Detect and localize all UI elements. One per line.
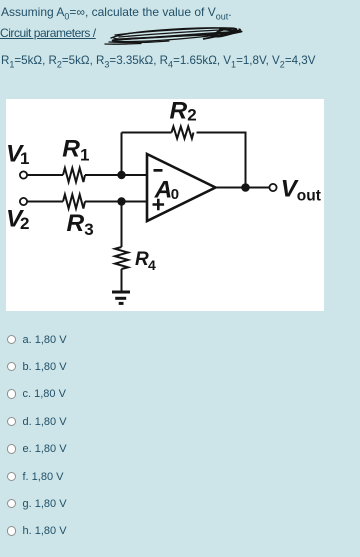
answer option c bbox=[0, 384, 360, 404]
wire: V2 terminal to R3 bbox=[28, 201, 64, 203]
resistor R1 bbox=[63, 168, 85, 182]
answer option d bbox=[0, 412, 360, 432]
node A (inverting junction) bbox=[117, 171, 125, 179]
answer option f bbox=[0, 467, 360, 487]
wire: feedback top right segment bbox=[197, 133, 246, 188]
scribble redaction bbox=[103, 23, 245, 48]
wire: op-amp output bbox=[216, 187, 270, 189]
svg-text:1: 1 bbox=[80, 145, 89, 164]
answer option h bbox=[0, 521, 360, 541]
terminal V1 bbox=[20, 171, 27, 178]
answer option g bbox=[0, 494, 360, 514]
resistor R3 bbox=[63, 195, 85, 209]
wire: node A up to feedback bbox=[121, 133, 123, 176]
label R4 bbox=[135, 249, 156, 273]
svg-text:R: R bbox=[135, 249, 149, 270]
op-amp minus sign bbox=[154, 169, 163, 172]
label A0 bbox=[154, 177, 180, 204]
svg-text:4: 4 bbox=[148, 257, 156, 273]
svg-text:1: 1 bbox=[20, 149, 29, 168]
wire: feedback top left segment bbox=[122, 132, 172, 134]
svg-text:out: out bbox=[297, 188, 321, 205]
svg-text:2: 2 bbox=[20, 214, 29, 233]
terminal Vout bbox=[269, 184, 276, 191]
answer option a bbox=[0, 330, 360, 350]
resistor R2 bbox=[172, 127, 194, 139]
question line 3: parameters bbox=[1, 55, 315, 67]
wire: node B down to R4 bbox=[121, 202, 123, 248]
svg-text:2: 2 bbox=[187, 106, 196, 125]
circuit image white box bbox=[6, 99, 324, 312]
node B (non-inverting junction) bbox=[117, 197, 125, 205]
label V1 bbox=[6, 140, 29, 167]
label V2 bbox=[6, 205, 29, 233]
op-amp plus sign bbox=[153, 199, 165, 211]
label Vout bbox=[281, 176, 321, 205]
label R3 bbox=[67, 210, 94, 239]
svg-text:3: 3 bbox=[84, 220, 93, 239]
ground bbox=[112, 292, 130, 303]
resistor R4 bbox=[115, 247, 128, 269]
svg-text:A: A bbox=[154, 177, 173, 204]
wire: R4 to ground bbox=[121, 269, 123, 291]
answer option b bbox=[0, 357, 360, 377]
question line 2: link bbox=[0, 27, 96, 39]
svg-text:0: 0 bbox=[171, 186, 179, 203]
terminal V2 bbox=[20, 198, 27, 205]
answer option e bbox=[0, 439, 360, 459]
wire: R1 to op-amp inverting input bbox=[85, 174, 147, 176]
question line 1 bbox=[1, 6, 232, 18]
svg-text:R: R bbox=[62, 135, 80, 162]
wire: V1 terminal to R1 bbox=[28, 174, 64, 176]
label R1 bbox=[62, 135, 89, 164]
node C (output junction) bbox=[241, 183, 250, 192]
op-amp A0 bbox=[147, 154, 216, 221]
svg-text:R: R bbox=[170, 97, 188, 124]
wire: R3 to op-amp non-inverting input bbox=[85, 201, 147, 203]
svg-text:R: R bbox=[67, 210, 85, 237]
label R2 bbox=[170, 97, 197, 124]
